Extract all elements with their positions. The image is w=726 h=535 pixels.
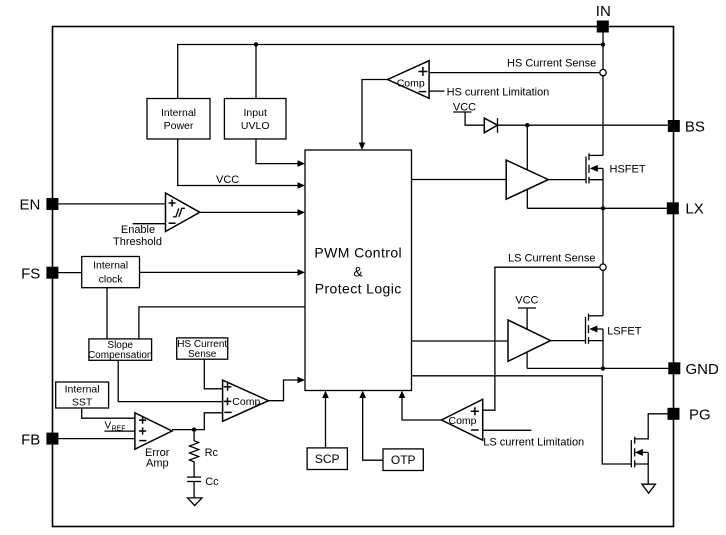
pin FS (21, 266, 58, 283)
wire LS driver top tap (526, 308, 528, 329)
svg-text:Internal: Internal (161, 107, 196, 119)
svg-text:Rc: Rc (205, 447, 219, 459)
svg-text:Protect Logic: Protect Logic (315, 281, 402, 297)
box OTP (383, 449, 423, 471)
power VCC LS driver (515, 294, 538, 308)
wire UVLO to PWM (256, 139, 302, 164)
arrowhead into PWM bottom (OTP) (359, 391, 366, 399)
svg-text:Comp: Comp (397, 77, 425, 89)
svg-text:LSFET: LSFET (607, 325, 642, 337)
wire VCC internal power to PWM (178, 139, 302, 186)
svg-text:Cc: Cc (205, 476, 219, 488)
svg-text:Amp: Amp (146, 458, 169, 470)
label VREF (105, 421, 126, 433)
diode bootstrap (484, 118, 497, 133)
node error amp output junction (192, 427, 196, 431)
svg-text:PG: PG (689, 407, 711, 424)
pin BS (668, 119, 705, 136)
ground Cc (188, 498, 203, 506)
wire FB to error amp (57, 438, 135, 440)
svg-text:Compensation: Compensation (88, 350, 152, 361)
svg-text:VCC: VCC (515, 294, 538, 306)
node BS junction (525, 123, 529, 127)
svg-text:Comp: Comp (232, 396, 260, 408)
wire LS comp output to PWM (402, 394, 442, 421)
wire HS current sense (429, 72, 600, 74)
svg-text:Internal: Internal (93, 259, 128, 271)
svg-text:Power: Power (164, 120, 194, 132)
op-amp Comp LS current limitation (442, 399, 483, 440)
pin IN (596, 3, 611, 33)
wire comparator output to PWM (269, 380, 303, 401)
pin EN (19, 197, 58, 214)
svg-text:IN: IN (596, 3, 611, 20)
wire HS comp output to PWM top (362, 80, 388, 148)
svg-text:FB: FB (21, 432, 40, 449)
wire HS comp minus stub (429, 90, 444, 92)
op-amp enable comparator (166, 193, 200, 232)
op-amp Comp HS current limitation (388, 61, 430, 99)
transistor HSFET (548, 153, 646, 208)
wire slope comp to comparator (118, 360, 222, 401)
arrowhead into PWM (VCC) (298, 182, 306, 189)
svg-text:V: V (105, 421, 112, 432)
wire UVLO riser (255, 45, 257, 99)
op-amp HS driver (506, 160, 548, 199)
svg-text:GND: GND (686, 361, 720, 378)
wire PWM to LS driver input (412, 340, 509, 342)
wire diode to BS pin (498, 124, 668, 126)
wire LS comp minus stub (483, 429, 532, 431)
svg-text:SST: SST (72, 396, 93, 408)
node GND junction (601, 366, 605, 370)
node LS current sense tap (600, 264, 606, 270)
svg-text:Enable: Enable (121, 224, 155, 236)
node HS current sense tap (600, 69, 606, 75)
node junction top line IN rail (601, 42, 605, 46)
box HS Current Sense (177, 338, 228, 360)
svg-text:EN: EN (19, 197, 40, 214)
box Internal Power (147, 99, 210, 140)
box Internal clock (82, 257, 140, 288)
capacitor Cc (187, 462, 219, 498)
wire VREF to error amp (105, 430, 135, 432)
arrowhead into PWM bottom (LS comp) (399, 391, 406, 399)
transistor PG FET (631, 437, 648, 484)
svg-text:FS: FS (21, 266, 40, 283)
svg-text:&: & (353, 263, 363, 279)
wire PWM to HS driver input (412, 179, 507, 181)
wire PWM to PG gate (412, 376, 632, 464)
wire clock to PWM (140, 271, 303, 273)
svg-text:LS current Limitation: LS current Limitation (483, 436, 584, 448)
wire LS driver bottom tap (526, 352, 528, 368)
wire VCC to diode (465, 112, 484, 125)
wire EN to comparator (57, 203, 166, 205)
op-amp current comparator (223, 380, 269, 421)
pin GND (668, 361, 719, 378)
resistor Rc (190, 430, 219, 463)
transistor LSFET (551, 314, 642, 369)
wire LX line (527, 207, 667, 209)
pin FB (21, 432, 58, 449)
svg-text:VCC: VCC (216, 174, 239, 186)
wire OTP to PWM (363, 394, 383, 461)
svg-text:HSFET: HSFET (610, 163, 646, 175)
wire HS driver top tap (526, 125, 528, 169)
wire SCP to PWM (325, 394, 327, 448)
wire rail LX to LSFET (602, 208, 604, 315)
wire PG pin to PGFET drain (635, 414, 668, 439)
svg-text:OTP: OTP (391, 453, 416, 467)
wire LS current sense path (483, 267, 600, 410)
arrowhead into PWM (UVLO) (298, 160, 306, 167)
box Input UVLO (224, 99, 286, 140)
svg-text:Sense: Sense (188, 349, 217, 360)
box Internal SST (56, 382, 109, 408)
wire clock to slope compensation (106, 288, 108, 339)
svg-text:Comp: Comp (449, 415, 477, 427)
op-amp LS driver (508, 320, 551, 361)
wire HS driver bottom tap (526, 190, 528, 209)
arrowhead into PWM bottom (SCP) (322, 391, 329, 399)
wire EN comp output to PWM (200, 211, 302, 213)
svg-text:LS Current Sense: LS Current Sense (508, 253, 595, 265)
box Slope Compensation (88, 339, 152, 361)
ground PG (642, 484, 656, 493)
svg-text:Threshold: Threshold (113, 236, 162, 248)
node junction top line UVLO (254, 42, 258, 46)
wire error amp output (172, 413, 223, 430)
arrowhead into PWM (comparator) (298, 377, 306, 384)
wire slope comp to PWM (139, 307, 305, 339)
svg-text:Input: Input (244, 107, 267, 119)
wire GND line (527, 367, 668, 369)
wire FS to clock (57, 272, 82, 274)
wire IN rail (602, 27, 604, 156)
wire SST to error amp (82, 408, 135, 418)
svg-text:Internal: Internal (65, 384, 100, 396)
svg-text:UVLO: UVLO (241, 120, 270, 132)
svg-text:SCP: SCP (315, 452, 340, 466)
svg-text:PWM Control: PWM Control (314, 244, 402, 260)
pin PG (668, 407, 711, 424)
svg-text:clock: clock (99, 274, 124, 286)
arrowhead into PWM (clock) (298, 269, 306, 276)
svg-text:HS Current Sense: HS Current Sense (507, 57, 596, 69)
arrowhead into PWM (EN) (298, 209, 306, 216)
wire HS sense box to comparator (204, 359, 222, 389)
svg-text:BS: BS (685, 119, 705, 136)
op-amp Error Amp (135, 413, 172, 449)
wire top supply line (178, 45, 603, 99)
arrowhead into PWM top (359, 143, 366, 151)
chip border (53, 27, 674, 527)
node LX junction (601, 206, 605, 210)
box SCP (307, 448, 347, 470)
pin LX (667, 201, 704, 218)
svg-text:LX: LX (685, 201, 703, 218)
wire enable threshold stub (133, 223, 166, 225)
box PWM Control and Protect Logic (305, 150, 412, 391)
svg-text:HS current Limitation: HS current Limitation (447, 86, 550, 98)
power VCC bootstrap (453, 102, 476, 114)
